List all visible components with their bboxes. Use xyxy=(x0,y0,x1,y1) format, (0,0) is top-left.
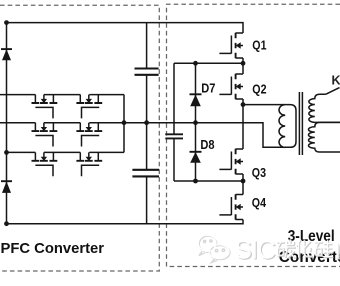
transistor Q3 xyxy=(219,149,243,174)
transformer T1 secondary winding lower xyxy=(308,122,340,152)
wire: DC-link capacitor branch xyxy=(146,23,148,224)
wire: row1 tie M1-M2 xyxy=(44,94,80,96)
wire: clamp diode leg xyxy=(195,63,197,181)
wire: Q1 source node to flying-cap corner xyxy=(174,62,243,64)
PFC MOSFET M3 xyxy=(32,123,58,147)
PFC converter dashed box xyxy=(0,5,159,271)
svg-text:D7: D7 xyxy=(201,81,215,96)
watermark hanzi 硅 xyxy=(315,240,334,257)
flying capacitor C3 xyxy=(165,134,183,138)
3-level converter dashed box xyxy=(167,4,340,266)
wire: flying capacitor branch xyxy=(174,63,243,181)
watermark text SIC xyxy=(235,234,277,265)
PFC MOSFET M6 xyxy=(76,152,102,176)
svg-text:PFC Converter: PFC Converter xyxy=(1,241,105,257)
diode D7 xyxy=(190,94,202,106)
wire: Q stack segment Q3-Q4 xyxy=(242,174,244,195)
capacitor C2 xyxy=(132,170,159,177)
node: Q3-Q4 junction xyxy=(241,179,246,184)
wire: Q stack segment Q1-Q2 xyxy=(242,58,244,74)
wire: row2 left AC lead xyxy=(0,122,35,124)
node: D7-D8 midpoint xyxy=(193,120,198,125)
capacitor C1 xyxy=(135,69,159,75)
boost diode lower left xyxy=(1,181,12,193)
PFC MOSFET M5 xyxy=(32,152,58,176)
svg-text:Q2: Q2 xyxy=(252,82,266,97)
svg-text:SIC: SIC xyxy=(235,234,276,264)
node: row3 junction on bus xyxy=(4,150,9,155)
watermark letter M xyxy=(334,234,340,265)
transistor Q1 xyxy=(219,33,243,58)
svg-text:D8: D8 xyxy=(200,137,214,152)
node: rows right riser on mid rail xyxy=(122,120,127,125)
PFC MOSFET M1 xyxy=(32,95,58,119)
node: DC-link midpoint xyxy=(144,120,149,125)
wire: Q2 source node to primary top xyxy=(243,104,290,106)
transformer T1 secondary winding upper xyxy=(309,94,340,122)
watermark hanzi 化 xyxy=(297,239,313,258)
watermark WeChat logo bubbles xyxy=(198,235,230,262)
wire: row1 right to riser xyxy=(89,94,124,96)
node: Q2-Q3 junction xyxy=(241,102,246,107)
node: Q1-Q2 junction xyxy=(241,61,246,66)
transformer T1 primary winding xyxy=(279,105,296,148)
switch K blade xyxy=(326,88,340,95)
wire: top DC+ rail with Q1 drain drop xyxy=(7,23,244,33)
node: D7 cathode top xyxy=(193,61,198,66)
svg-text:K: K xyxy=(332,73,340,87)
wire: row2 tie M3-M4 xyxy=(44,122,80,124)
wire: midpoint rail to transformer primary bottom xyxy=(89,123,290,148)
wire: right riser joining rows 1-3 xyxy=(123,95,125,153)
node: bottom-left junction xyxy=(4,221,9,226)
transformer T1 core xyxy=(299,92,302,155)
wire: row3 tie M5-M6 xyxy=(44,151,80,153)
wire: row3 rail from bus xyxy=(7,151,36,153)
transistor Q2 xyxy=(219,74,243,99)
svg-text:Q3: Q3 xyxy=(252,165,266,180)
node: D8 anode bottom xyxy=(193,179,198,184)
PFC MOSFET M2 xyxy=(76,95,102,119)
watermark hanzi 碳 xyxy=(277,239,296,258)
wire: row3 right to riser xyxy=(89,151,124,153)
svg-text:M: M xyxy=(334,234,340,264)
PFC MOSFET M4 xyxy=(76,123,102,147)
node: top-left junction xyxy=(4,20,9,25)
wire: bottom DC- rail with Q4 source riser xyxy=(7,220,244,224)
svg-text:Q1: Q1 xyxy=(252,37,266,52)
boost diode top left xyxy=(1,49,12,60)
svg-text:Q4: Q4 xyxy=(252,195,267,210)
wire: left vertical bus xyxy=(6,23,8,224)
wire: row1 left AC lead xyxy=(0,94,35,96)
wire: Q stack segment Q2-Q3 xyxy=(242,99,244,149)
transistor Q4 xyxy=(219,194,243,219)
diode D8 xyxy=(190,152,202,163)
